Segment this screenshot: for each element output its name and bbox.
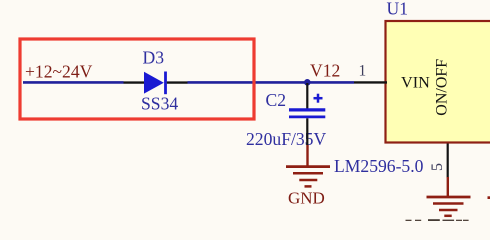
capacitor C2 polarity plus sign — [314, 94, 323, 103]
svg-text:D3: D3 — [143, 47, 165, 67]
svg-text:5: 5 — [429, 163, 446, 171]
svg-text:+12~24V: +12~24V — [25, 61, 93, 81]
ground GND power port stem (left) — [306, 145, 308, 167]
designator U1 — [387, 0, 409, 18]
svg-text:1: 1 — [359, 62, 367, 79]
capacitor C2 — [289, 110, 325, 117]
svg-text:U1: U1 — [387, 0, 409, 18]
pin name ON/OFF — [434, 59, 451, 116]
svg-text:C2: C2 — [266, 90, 287, 110]
svg-text:V12: V12 — [310, 61, 340, 81]
designator C2 — [266, 90, 287, 110]
pin 5 of U1 — [447, 144, 449, 178]
ground symbol (left) — [286, 167, 330, 187]
svg-text:GND: GND — [288, 189, 325, 208]
capacitor C2 top lead — [306, 83, 308, 109]
value LM2596-5.0 — [334, 156, 424, 176]
ground symbol (right) — [427, 197, 471, 216]
clipped ground label text at bottom edge — [406, 219, 469, 221]
svg-text:VIN: VIN — [401, 73, 430, 91]
svg-text:LM2596-5.0: LM2596-5.0 — [334, 156, 424, 176]
ground wire from U1 pin 5 — [447, 177, 449, 197]
net label V12 — [310, 61, 340, 81]
clipped red element at right edge — [488, 196, 490, 199]
svg-text:ON/OFF: ON/OFF — [434, 59, 451, 116]
power port label GND — [288, 189, 325, 208]
designator D3 — [143, 47, 165, 67]
pin number 1 — [359, 62, 367, 79]
pin 1 of U1 — [354, 81, 387, 83]
svg-text:SS34: SS34 — [141, 94, 178, 114]
wire from +12~24V input to diode D3 — [23, 81, 124, 84]
diode D3 — [144, 72, 166, 95]
junction node V12 — [304, 79, 311, 86]
power net label +12~24V — [25, 61, 93, 81]
diode D3 cathode lead — [167, 81, 188, 83]
value SS34 — [141, 94, 178, 114]
selection highlight rectangle — [20, 39, 254, 119]
capacitor C2 bottom lead — [306, 118, 308, 145]
svg-text:220uF/35V: 220uF/35V — [246, 129, 326, 149]
pin number 5 — [429, 163, 446, 171]
wire from diode D3 to U1 pin 1 — [188, 81, 355, 84]
pin name VIN — [401, 73, 430, 91]
op-amp U1 component body (LM2596 regulator) — [386, 21, 490, 143]
value 220uF/35V — [246, 129, 326, 149]
diode D3 anode lead — [124, 81, 145, 83]
